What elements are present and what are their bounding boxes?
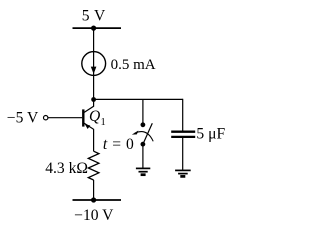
- svg-text:Q: Q: [89, 108, 100, 125]
- base wire: [48, 117, 82, 119]
- ground under switch: [136, 168, 150, 174]
- switch SW1: [132, 122, 153, 146]
- wire capacitor branch: [182, 99, 184, 131]
- resistor RE 4.3k zigzag: [88, 151, 99, 180]
- svg-text:4.3 kΩ: 4.3 kΩ: [45, 160, 88, 177]
- ground under capacitor: [175, 170, 191, 176]
- supply bar -10V: [73, 199, 122, 201]
- svg-text:−10 V: −10 V: [74, 207, 114, 224]
- wire switch to ground: [142, 144, 144, 168]
- current source I1 circle: [82, 52, 106, 76]
- bottom contact dot: [141, 142, 146, 147]
- current source arrow: [91, 67, 97, 74]
- svg-text:t = 0: t = 0: [103, 136, 134, 153]
- base bar: [82, 109, 84, 126]
- wire capacitor to ground: [182, 137, 184, 170]
- junction dot bottom: [91, 197, 96, 202]
- closing arc: [135, 132, 153, 142]
- top contact dot: [141, 122, 146, 127]
- collector lead: [84, 100, 93, 113]
- svg-text:0.5 mA: 0.5 mA: [111, 57, 156, 73]
- wire resistor to bottom bar: [93, 180, 95, 200]
- blade: [143, 123, 152, 144]
- transistor Q1: [83, 100, 93, 152]
- svg-text:5 μF: 5 μF: [196, 125, 225, 142]
- capacitor C1: [171, 132, 195, 137]
- svg-text:5 V: 5 V: [82, 8, 106, 25]
- arc arrowhead: [132, 130, 139, 134]
- junction dot top: [91, 26, 96, 31]
- emitter arrow (pnp, points to bar): [85, 124, 90, 129]
- wire main vertical: [93, 28, 95, 99]
- supply bar +5V: [73, 27, 122, 29]
- wire switch branch: [142, 99, 144, 123]
- wire top rail: [94, 98, 183, 100]
- svg-text:−5 V: −5 V: [7, 109, 39, 126]
- svg-text:1: 1: [101, 117, 106, 128]
- input terminal: [44, 116, 48, 120]
- emitter lead: [84, 123, 93, 151]
- node collector dot: [91, 97, 96, 102]
